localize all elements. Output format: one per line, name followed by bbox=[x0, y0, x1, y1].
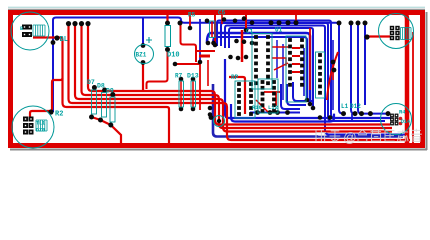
svg-text:L1: L1 bbox=[341, 103, 349, 110]
svg-text:BZ1: BZ1 bbox=[136, 52, 147, 59]
svg-text:D8: D8 bbox=[97, 83, 105, 90]
svg-text:DZB: DZB bbox=[36, 128, 45, 134]
svg-text:R2: R2 bbox=[55, 111, 63, 119]
svg-text:BL: BL bbox=[60, 36, 68, 44]
svg-text:U1: U1 bbox=[275, 27, 283, 34]
svg-text:RP: RP bbox=[231, 74, 239, 81]
svg-text:TL1: TL1 bbox=[36, 121, 45, 127]
svg-text:L12: L12 bbox=[268, 104, 278, 111]
svg-text:D13: D13 bbox=[187, 73, 199, 80]
svg-text:D14: D14 bbox=[401, 119, 410, 125]
svg-text:C1: C1 bbox=[246, 28, 254, 35]
svg-text:R5: R5 bbox=[188, 12, 196, 19]
svg-text:D12: D12 bbox=[350, 103, 361, 110]
svg-text:@: @ bbox=[343, 130, 357, 145]
svg-text:D7: D7 bbox=[87, 79, 95, 86]
svg-text:D9: D9 bbox=[106, 88, 114, 95]
svg-text:D10: D10 bbox=[167, 52, 180, 60]
svg-text:R10: R10 bbox=[252, 104, 262, 111]
svg-text:R7: R7 bbox=[175, 73, 183, 80]
svg-text:R4: R4 bbox=[399, 109, 406, 116]
svg-text:C5: C5 bbox=[218, 10, 226, 17]
svg-text:B: B bbox=[20, 26, 23, 32]
